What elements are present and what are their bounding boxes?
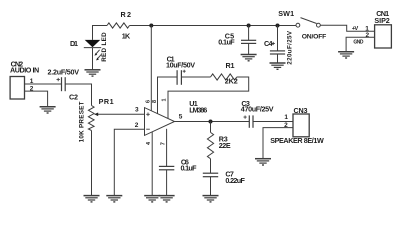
- wiper PR1: [94, 113, 145, 117]
- op-amp U1: [145, 108, 175, 136]
- preset PR1: [88, 106, 94, 131]
- svg-text:R1: R1: [226, 61, 235, 70]
- svg-text:470uF/25V: 470uF/25V: [241, 105, 274, 114]
- ground CN1: [338, 52, 354, 58]
- resistor R1: [211, 74, 237, 80]
- svg-text:4: 4: [146, 141, 152, 145]
- ground CN2: [40, 107, 56, 113]
- svg-text:22E: 22E: [219, 141, 231, 150]
- polarity C4: [272, 42, 275, 45]
- svg-text:0.1uF: 0.1uF: [218, 38, 235, 47]
- node junction R3/output: [209, 120, 213, 124]
- svg-text:2.2uF/50V: 2.2uF/50V: [48, 68, 80, 77]
- svg-text:2: 2: [365, 32, 369, 39]
- pin 2 CN1: [346, 37, 375, 51]
- svg-text:7: 7: [161, 142, 167, 145]
- svg-text:AUDIO IN: AUDIO IN: [10, 66, 39, 75]
- ground C6: [159, 196, 175, 202]
- connector CN1: [375, 25, 392, 48]
- svg-text:220uF/25V: 220uF/25V: [287, 30, 294, 65]
- node junction pin6/rail: [149, 24, 153, 28]
- svg-text:RED LED: RED LED: [101, 32, 108, 62]
- svg-text:0.22uF: 0.22uF: [225, 176, 245, 185]
- pin 6 wire: [150, 26, 152, 111]
- ground inverting input: [106, 196, 122, 202]
- pin 1 CN2: [25, 83, 62, 85]
- svg-text:PR1: PR1: [99, 97, 114, 106]
- pin 2 CN3: [263, 128, 293, 159]
- resistor R2: [107, 23, 130, 28]
- pin 8 wire: [158, 77, 178, 114]
- svg-text:SW1: SW1: [278, 9, 294, 18]
- wire R1 to pin 1: [168, 77, 249, 119]
- wire V+ rail top: [93, 26, 108, 40]
- ground C7: [203, 196, 219, 202]
- pin 7 wire: [166, 129, 168, 167]
- svg-text:R2: R2: [121, 10, 132, 19]
- svg-text:1K: 1K: [122, 31, 131, 40]
- svg-text:D1: D1: [70, 39, 78, 48]
- capacitor C2: [57, 77, 66, 91]
- svg-text:2K2: 2K2: [225, 77, 238, 86]
- ground pin 4: [144, 196, 160, 202]
- pin 4 wire: [151, 132, 153, 196]
- node junction C4/rail: [276, 24, 280, 28]
- ground C5: [241, 55, 257, 61]
- connector CN3: [293, 114, 309, 137]
- svg-text:1: 1: [284, 114, 288, 121]
- svg-text:8: 8: [152, 100, 158, 103]
- svg-text:3: 3: [135, 107, 139, 114]
- svg-text:2: 2: [30, 85, 34, 92]
- wire C2 to preset: [65, 84, 91, 106]
- svg-text:SIP2: SIP2: [374, 16, 389, 25]
- LED D1: [84, 40, 101, 70]
- svg-text:C4: C4: [264, 39, 273, 48]
- capacitor C7: [203, 173, 218, 195]
- svg-text:2: 2: [135, 122, 139, 129]
- wire preset to ground: [91, 131, 93, 196]
- svg-text:ON/OFF: ON/OFF: [302, 34, 327, 41]
- wire inverting input to ground: [114, 129, 144, 195]
- svg-text:6: 6: [145, 100, 151, 103]
- svg-text:LM386: LM386: [189, 105, 207, 114]
- capacitor C3: [244, 115, 254, 127]
- svg-text:+V: +V: [352, 26, 359, 32]
- ground PR1: [84, 196, 100, 202]
- pin 2 CN2: [25, 91, 48, 107]
- wire R3 top: [210, 122, 212, 133]
- svg-text:0.1uF: 0.1uF: [181, 164, 198, 173]
- ground C4: [270, 63, 286, 69]
- svg-text:SPEAKER 8E/1W: SPEAKER 8E/1W: [270, 136, 324, 145]
- ground CN3: [255, 159, 271, 165]
- svg-text:10uF/50V: 10uF/50V: [166, 61, 195, 70]
- svg-text:CN3: CN3: [294, 106, 308, 115]
- svg-text:1: 1: [162, 98, 168, 101]
- svg-text:GND: GND: [353, 40, 363, 46]
- wire switch to CN1: [320, 25, 375, 31]
- svg-text:5: 5: [179, 114, 183, 121]
- wire C1 to R1: [181, 76, 210, 78]
- resistor R3: [207, 132, 213, 158]
- wire R3 to C7: [210, 159, 212, 173]
- svg-text:10K PRESET: 10K PRESET: [79, 101, 86, 142]
- connector CN2: [10, 77, 24, 100]
- capacitor C4: [270, 26, 285, 63]
- wire rail to switch: [130, 25, 297, 27]
- svg-text:C2: C2: [69, 92, 78, 101]
- wire output pin 5: [175, 121, 250, 123]
- wire C3 to CN3: [253, 121, 293, 123]
- capacitor C1: [177, 70, 186, 85]
- svg-text:2: 2: [284, 122, 288, 129]
- node junction C5/rail: [247, 24, 251, 28]
- switch SW1: [296, 18, 320, 28]
- capacitor C5: [241, 26, 256, 55]
- capacitor C6: [159, 166, 174, 195]
- ground D1: [85, 70, 101, 76]
- svg-text:1: 1: [30, 78, 34, 85]
